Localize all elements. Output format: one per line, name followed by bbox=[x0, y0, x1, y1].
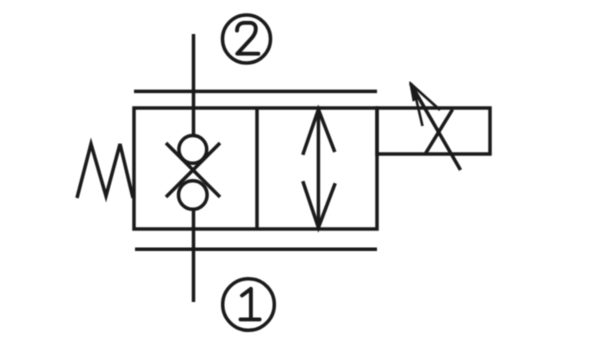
solenoid X leg / bbox=[426, 110, 453, 154]
cell divider bbox=[255, 108, 259, 229]
wire: port 2 vertical line (upper segment) bbox=[192, 34, 196, 136]
valve body envelope bbox=[134, 108, 377, 229]
port label 2 circle bbox=[223, 15, 271, 63]
proportional arrow head fill bbox=[410, 82, 419, 101]
flow arrow shaft bbox=[317, 108, 321, 229]
wire: port 1 vertical line (lower segment) bbox=[192, 209, 196, 302]
poppet ball upper bbox=[179, 136, 207, 164]
proportional arrow shaft bbox=[411, 84, 461, 171]
port label 1 circle bbox=[223, 279, 275, 331]
flow arrow lower chevron bbox=[303, 181, 335, 227]
wire: port 2 rail bbox=[134, 90, 377, 94]
spring bbox=[77, 144, 133, 198]
wire: port 1 rail bbox=[135, 248, 377, 252]
solenoid U1 box bbox=[377, 108, 490, 154]
poppet ball lower bbox=[179, 181, 208, 210]
port label 1 digit bbox=[241, 289, 260, 320]
port label 2 digit bbox=[237, 23, 258, 54]
seat X leg \ bbox=[166, 143, 220, 197]
proportional arrow left barb bbox=[415, 92, 423, 126]
seat X leg / bbox=[166, 143, 220, 197]
proportional arrow right barb bbox=[411, 84, 440, 110]
flow arrow upper chevron bbox=[303, 110, 335, 155]
